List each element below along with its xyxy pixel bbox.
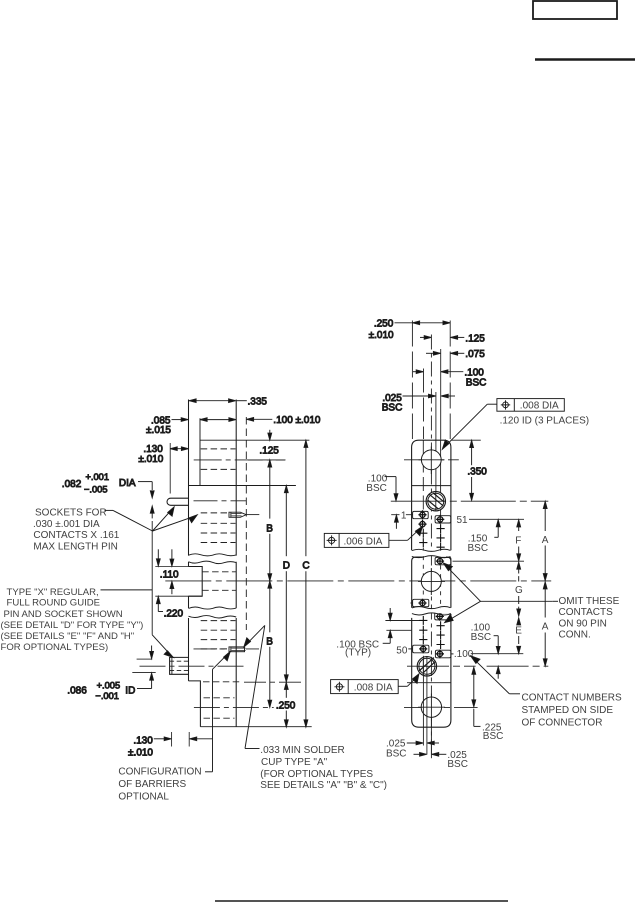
dim .025 BSC bottom right: [414, 750, 468, 770]
right view body outline section 1: [412, 440, 451, 550]
svg-text:ID: ID: [125, 686, 135, 697]
label .033 MIN SOLDER CUP: [260, 745, 387, 791]
svg-text:1: 1: [401, 510, 407, 521]
dim .150 BSC: [468, 520, 501, 554]
left view centerline rows: [140, 460, 552, 708]
omitted contact lower: [436, 612, 444, 621]
omitted contact upper: [436, 557, 444, 566]
guide notch recess: [189, 567, 203, 597]
label 51: [457, 515, 469, 526]
body feature line at shoulder height: [412, 485, 451, 487]
svg-text:BSC: BSC: [447, 759, 468, 770]
cup2 row centerline stub: [194, 648, 260, 650]
circled contacts: [418, 510, 444, 658]
svg-text:.008 DIA: .008 DIA: [520, 401, 559, 412]
svg-text:.250: .250: [374, 319, 394, 330]
row centerline .125 row: [194, 459, 285, 461]
mating plane phantom line: [245, 417, 247, 630]
dim .250 +-.010: [369, 319, 450, 341]
ext line column 2: [440, 349, 442, 440]
dim .350: [467, 441, 487, 501]
recess cavity rows: [202, 571, 236, 573]
lower tube ID hidden lines: [170, 661, 189, 670]
dim .100 BSC (right mid): [471, 622, 501, 678]
lower tube inner cap line: [171, 657, 173, 674]
dim B (upper) / B (lower) line: [266, 460, 273, 707]
dim D line with .250: [276, 486, 296, 727]
feature frame .008 DIA top: [442, 399, 564, 450]
svg-text:BSC: BSC: [483, 731, 504, 742]
column 1 dashed line (below contacts): [422, 548, 424, 599]
row hatch1 centerline: [391, 500, 549, 502]
contact 2 (pointed by .006 frame): [418, 520, 426, 529]
svg-text:B: B: [266, 636, 273, 647]
svg-text:50: 50: [396, 645, 408, 656]
guide circle middle crosshair: [418, 568, 445, 595]
contact 51: [436, 515, 444, 524]
tube top extension: [137, 658, 153, 660]
svg-text:BSC: BSC: [382, 402, 403, 413]
contact 1: [418, 510, 426, 519]
label .100 (right of body): [451, 649, 474, 660]
svg-text:(TYP): (TYP): [345, 648, 371, 659]
feature frame .006 DIA: [324, 526, 422, 547]
row 620 extension: [385, 620, 423, 622]
dim .125 (left view): [248, 430, 286, 467]
svg-text:.350: .350: [467, 467, 487, 478]
svg-text:.120 ID (3 PLACES): .120 ID (3 PLACES): [500, 416, 589, 427]
svg-text:.008 DIA: .008 DIA: [354, 683, 393, 694]
guide hole circle top: [421, 450, 441, 470]
right view body outline middle section: [412, 557, 451, 608]
row omit1 extension: [453, 560, 525, 562]
row extension for .125: [248, 459, 286, 461]
tube bottom extension: [132, 671, 155, 673]
svg-text:BSC: BSC: [386, 748, 407, 759]
dim E: [515, 618, 522, 654]
dim C line: [302, 440, 309, 727]
leader OMIT: [443, 563, 558, 623]
contact 100: [436, 650, 444, 659]
dim .130 +-.010 (top): [138, 443, 188, 494]
body bottom edge: [200, 726, 311, 728]
guide hole circle middle: [421, 571, 441, 591]
dim .100 BSC (TYP) left: [336, 608, 392, 659]
break A wavy lines: [412, 549, 451, 551]
svg-text:(SEE DETAIL "D" FOR TYPE "Y"): (SEE DETAIL "D" FOR TYPE "Y"): [1, 620, 144, 631]
svg-text:A: A: [542, 535, 549, 546]
dim .125 (right view): [420, 333, 485, 344]
dim .130 +-.010 (bottom): [128, 732, 213, 758]
label 50: [396, 645, 412, 656]
ext line hatch circle axis: [435, 392, 437, 512]
row circle1 centerline: [404, 459, 459, 461]
solder cup contact glyph row 50: [229, 647, 246, 652]
dim .100 BSC (top right): [413, 368, 486, 389]
svg-text:.100: .100: [454, 649, 474, 660]
dim .082 +.001 -.005 DIA: [62, 472, 154, 519]
section-2 extension verticals: [423, 656, 431, 758]
label CONTACT NUMBERS STAMPED ON SIDE OF CONNECTOR: [522, 692, 623, 728]
ext line column 1: [423, 369, 425, 440]
contact 50: [419, 645, 427, 654]
box contact 50: [413, 645, 429, 653]
hatched guide circle 1: [426, 492, 445, 512]
svg-text:.086: .086: [67, 686, 87, 697]
right view break wavy lines: [412, 606, 451, 608]
label CONFIGURATION OF BARRIERS OPTIONAL: [118, 766, 201, 802]
notch top extension: [155, 566, 202, 568]
lower socket tube (.086) outline: [170, 657, 189, 674]
svg-text:CUP TYPE "A": CUP TYPE "A": [261, 757, 328, 768]
column 2 solid line (upper): [440, 440, 442, 516]
dim .225 BSC: [472, 667, 503, 742]
svg-text:(FOR OPTIONAL TYPES: (FOR OPTIONAL TYPES: [260, 769, 373, 780]
row contact 51 extension: [469, 518, 524, 520]
vertical centerline (full): [430, 335, 432, 759]
box contact above break: [413, 599, 429, 606]
svg-text:+.005: +.005: [97, 680, 121, 690]
vertical extension lines above body: [412, 321, 450, 759]
box contact 51: [435, 516, 451, 523]
svg-text:D: D: [283, 560, 290, 571]
svg-text:.006 DIA: .006 DIA: [344, 536, 383, 547]
svg-text:BSC: BSC: [471, 632, 492, 643]
leader from TYPE X: [101, 589, 153, 591]
svg-text:.075: .075: [465, 349, 485, 360]
leader CONTACT NUMBERS: [471, 656, 520, 694]
svg-text:SOCKETS FOR: SOCKETS FOR: [35, 507, 107, 518]
box contact 100: [435, 650, 451, 658]
box contact 1: [413, 511, 429, 518]
left body front face upper segment: [188, 400, 190, 556]
svg-text:DIA: DIA: [119, 478, 136, 489]
svg-text:+.001: +.001: [86, 472, 110, 482]
svg-text:OF BARRIERS: OF BARRIERS: [118, 779, 186, 790]
cavity row dashes upper tongue: [201, 448, 236, 450]
row bottom circle centerline: [404, 706, 478, 708]
svg-text:A: A: [542, 621, 549, 632]
svg-text:.335: .335: [248, 397, 268, 408]
left body front face stub above notch: [188, 562, 190, 567]
dim .335: [189, 397, 267, 408]
header box (empty) top right: [533, 1, 617, 19]
dim .075: [426, 349, 485, 360]
svg-text:BSC: BSC: [468, 543, 489, 554]
svg-text:.110: .110: [160, 570, 179, 581]
svg-text:CONTACT NUMBERS: CONTACT NUMBERS: [522, 692, 623, 703]
svg-text:OPTIONAL: OPTIONAL: [118, 792, 169, 803]
guide hole circle bottom: [421, 697, 441, 717]
svg-text:±.010: ±.010: [128, 747, 153, 758]
svg-text:TYPE "X" REGULAR,: TYPE "X" REGULAR,: [7, 587, 99, 598]
cross tick contacts column 1: [419, 529, 427, 644]
contact row 1 centerline right stub: [246, 514, 259, 516]
dim .025 BSC bottom left: [386, 738, 439, 759]
svg-text:G: G: [515, 585, 523, 596]
svg-text:.033 MIN SOLDER: .033 MIN SOLDER: [260, 745, 344, 756]
svg-text:CONFIGURATION: CONFIGURATION: [118, 766, 201, 777]
row contact 1 extension: [391, 514, 412, 516]
guide circle top crosshair: [419, 447, 445, 475]
leader from SOCKETS FOR: [105, 507, 198, 531]
right view body outline section 2: [412, 614, 451, 727]
bottom circle row centerline (left portion): [194, 706, 274, 708]
body top edge: [200, 439, 309, 441]
svg-text:OF CONNECTOR: OF CONNECTOR: [522, 718, 603, 729]
solder cup contact glyph row 1: [229, 512, 246, 517]
front face below notch to break2: [188, 596, 190, 608]
dim F: [515, 520, 521, 561]
guide circle bottom crosshair: [418, 694, 445, 722]
inner cavity wall: [199, 418, 201, 485]
row 630 extension: [386, 629, 411, 631]
svg-text:PIN AND SOCKET SHOWN: PIN AND SOCKET SHOWN: [4, 609, 123, 620]
label .100 BSC (left, pill row): [366, 473, 398, 529]
svg-text:BSC: BSC: [466, 377, 487, 388]
svg-text:SEE DETAILS "A" "B" & "C"): SEE DETAILS "A" "B" & "C"): [260, 780, 387, 791]
tongue right edge segments: [235, 400, 237, 727]
cavity rows lower tongue: [201, 620, 236, 622]
dim .220: [156, 549, 183, 619]
svg-text:C: C: [302, 560, 309, 571]
svg-text:.130: .130: [133, 735, 153, 746]
svg-text:−.005: −.005: [84, 485, 108, 495]
svg-text:B: B: [266, 523, 273, 534]
svg-text:E: E: [515, 625, 522, 636]
svg-text:.220: .220: [164, 609, 184, 620]
hatched guide circle 2: [417, 657, 436, 676]
label SOCKETS FOR ...: [33, 507, 120, 552]
label OMIT THESE CONTACTS ON 90 PIN CONN.: [559, 596, 620, 641]
dim A lower: [542, 582, 549, 666]
feature frame .008 DIA bottom: [331, 674, 419, 694]
row last (right view): [407, 682, 451, 684]
svg-text:±.010: ±.010: [138, 454, 163, 465]
cross tick contacts column 2: [437, 524, 445, 649]
svg-text:FOR OPTIONAL TYPES): FOR OPTIONAL TYPES): [1, 642, 109, 653]
contact above break: [418, 599, 426, 608]
break band mask: [412, 609, 451, 614]
last row centerline (left view): [244, 681, 303, 683]
tube centerline row: [140, 665, 247, 667]
column 1 dashed line (upper ext): [422, 440, 424, 510]
svg-text:STAMPED ON SIDE: STAMPED ON SIDE: [522, 705, 614, 716]
svg-text:OMIT THESE: OMIT THESE: [559, 596, 620, 607]
box omitted contact lower: [435, 613, 451, 620]
svg-text:.030 ±.001 DIA: .030 ±.001 DIA: [33, 519, 100, 530]
right view row lines: [385, 460, 548, 708]
box omitted contact upper: [435, 557, 451, 564]
svg-text:±.015: ±.015: [146, 425, 171, 436]
dim .110: [155, 549, 202, 596]
left view hidden cavity rows: [201, 449, 240, 718]
ext line right edge: [449, 321, 451, 440]
label TYPE X REGULAR ...: [1, 587, 144, 653]
svg-text:CONN.: CONN.: [559, 630, 591, 641]
dim .086 +.005 -.001 ID: [67, 646, 155, 701]
contact highlight boxes: [413, 511, 451, 657]
svg-text:ON 90 PIN: ON 90 PIN: [559, 618, 607, 629]
dim .025 BSC (top left): [382, 393, 455, 414]
pill centerline row: [194, 500, 247, 502]
svg-text:(SEE DETAILS "E" "F" AND "H": (SEE DETAILS "E" "F" AND "H": [1, 631, 135, 642]
bottom-left step: [189, 681, 201, 727]
svg-text:±.010: ±.010: [369, 330, 394, 341]
column 2 dashed stubs: [440, 566, 442, 612]
notch bottom extension: [155, 595, 202, 597]
break2 wavy lines: [189, 607, 237, 609]
dim .100 +-.010 (horizontal, to mating plane): [247, 415, 321, 426]
ext line left edge: [411, 321, 413, 440]
main horizontal centerline: [165, 580, 551, 582]
shared extension stem for .082/.086 + TYPE X leader: [152, 521, 173, 657]
row tick at box above break: [410, 602, 412, 604]
svg-text:CONTACTS X .161: CONTACTS X .161: [33, 530, 119, 541]
svg-text:.125: .125: [259, 446, 279, 457]
svg-text:.100 ±.010: .100 ±.010: [273, 415, 321, 426]
dim A upper: [542, 502, 549, 581]
dim G: [515, 562, 523, 616]
svg-text:51: 51: [457, 515, 469, 526]
front face below break2: [188, 618, 190, 681]
leader .033 solder cup: [244, 625, 265, 748]
svg-text:BSC: BSC: [366, 483, 387, 494]
row contact 100 extension: [471, 653, 524, 655]
footer rule: [215, 900, 508, 902]
svg-text:MAX LENGTH PIN: MAX LENGTH PIN: [33, 542, 117, 553]
svg-text:.082: .082: [62, 479, 82, 490]
body top edge right extension: [451, 439, 481, 441]
dim .085 +-.015: [146, 415, 236, 436]
row hatch2 centerline: [407, 665, 548, 667]
svg-text:FULL ROUND GUIDE: FULL ROUND GUIDE: [7, 597, 101, 608]
svg-text:.125: .125: [465, 333, 485, 344]
svg-text:.250: .250: [276, 700, 296, 711]
break1 wavy lines: [189, 554, 237, 556]
header rule: [535, 58, 635, 61]
svg-text:CONTACTS: CONTACTS: [559, 607, 614, 618]
break band mask A: [412, 551, 451, 556]
leader barriers: [205, 652, 230, 772]
svg-text:F: F: [515, 536, 521, 547]
shoulder line: [189, 485, 296, 487]
svg-text:−.001: −.001: [95, 691, 119, 701]
guide pin socket nose (pill .082): [167, 498, 189, 505]
extension line for pill face: [169, 443, 171, 494]
